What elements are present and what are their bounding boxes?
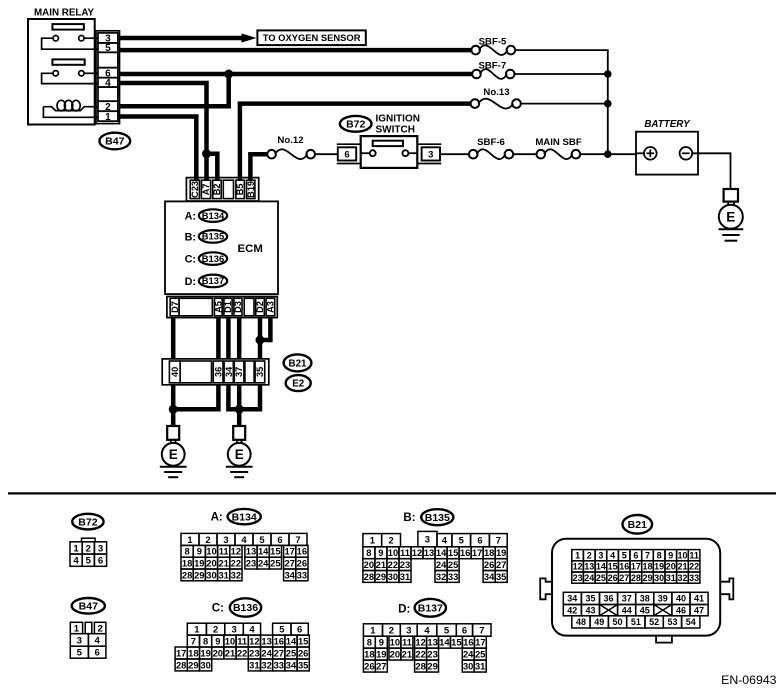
- svg-text:25: 25: [286, 647, 296, 658]
- svg-text:B47: B47: [105, 136, 124, 148]
- wire 40 to ground: [171, 385, 176, 426]
- svg-text:5: 5: [86, 556, 92, 567]
- svg-text:6: 6: [477, 535, 482, 546]
- label A B134: [211, 509, 261, 524]
- wire pin6 to SBF-7: [120, 72, 473, 77]
- svg-text:9: 9: [379, 637, 384, 648]
- svg-text:11: 11: [689, 550, 699, 560]
- svg-text:8: 8: [184, 546, 189, 557]
- wire 36 joins 40: [173, 385, 218, 410]
- main relay label: [34, 8, 95, 19]
- svg-text:B2: B2: [212, 184, 222, 196]
- svg-text:9: 9: [378, 547, 383, 558]
- svg-text:B:: B:: [403, 511, 415, 524]
- svg-text:1: 1: [370, 535, 375, 546]
- svg-text:B137: B137: [202, 275, 224, 286]
- svg-text:24: 24: [261, 647, 272, 658]
- svg-text:SWITCH: SWITCH: [376, 125, 415, 136]
- connector B47 pinout: [70, 622, 106, 658]
- svg-text:35: 35: [496, 571, 506, 582]
- svg-text:29: 29: [642, 573, 652, 583]
- svg-text:54: 54: [686, 617, 696, 627]
- svg-text:37: 37: [622, 594, 632, 604]
- battery label: [644, 119, 691, 130]
- svg-text:20: 20: [213, 647, 223, 658]
- svg-text:D1: D1: [223, 301, 233, 313]
- svg-text:MAIN SBF: MAIN SBF: [535, 137, 582, 148]
- svg-text:10: 10: [388, 547, 398, 558]
- svg-text:6: 6: [297, 624, 302, 635]
- svg-text:8: 8: [367, 637, 372, 648]
- wire D1 to 34: [226, 318, 231, 359]
- svg-text:A7: A7: [201, 184, 211, 196]
- main relay box: [28, 19, 95, 125]
- ignition switch contacts: [361, 150, 418, 156]
- svg-text:34: 34: [284, 569, 295, 580]
- svg-text:49: 49: [594, 617, 604, 627]
- svg-text:23: 23: [427, 649, 437, 660]
- oval A B134: [185, 209, 228, 222]
- ignition switch label: [376, 114, 420, 136]
- wire 35 joins 37: [239, 385, 260, 410]
- oval D B137: [185, 275, 228, 288]
- svg-text:3: 3: [598, 550, 603, 560]
- svg-text:5: 5: [459, 535, 464, 546]
- svg-text:B19: B19: [246, 181, 256, 198]
- svg-text:28: 28: [631, 573, 641, 583]
- svg-text:27: 27: [376, 661, 386, 672]
- connector B21 right tab: [720, 578, 733, 599]
- svg-text:E: E: [726, 209, 735, 224]
- ignition switch box: [361, 136, 418, 168]
- svg-text:15: 15: [451, 637, 461, 648]
- svg-text:13: 13: [424, 547, 434, 558]
- svg-text:20: 20: [364, 559, 374, 570]
- wire connector 3 to SBF-6: [440, 153, 469, 155]
- ignition switch bar: [373, 141, 403, 146]
- svg-text:SBF-5: SBF-5: [479, 36, 507, 47]
- connector B72 pinout: [70, 538, 107, 566]
- svg-text:1: 1: [73, 543, 79, 554]
- relay contact S1: [42, 36, 98, 50]
- svg-text:18: 18: [364, 649, 374, 660]
- svg-text:MAIN RELAY: MAIN RELAY: [34, 8, 95, 19]
- svg-text:BATTERY: BATTERY: [644, 119, 691, 130]
- svg-text:33: 33: [448, 571, 458, 582]
- wire branch to ECM B2: [207, 154, 218, 180]
- svg-text:5: 5: [259, 534, 264, 545]
- svg-text:11: 11: [219, 546, 229, 557]
- svg-text:11: 11: [237, 635, 247, 646]
- svg-text:2: 2: [98, 624, 103, 635]
- svg-text:50: 50: [612, 617, 622, 627]
- svg-text:32: 32: [231, 569, 241, 580]
- svg-text:IGNITION: IGNITION: [376, 114, 420, 125]
- battery plus terminal: [636, 147, 657, 160]
- svg-text:1: 1: [575, 550, 580, 560]
- svg-text:14: 14: [596, 562, 606, 572]
- svg-text:19: 19: [194, 558, 204, 569]
- svg-text:C:: C:: [185, 254, 196, 266]
- svg-text:TO OXYGEN SENSOR: TO OXYGEN SENSOR: [263, 32, 361, 43]
- svg-text:36: 36: [213, 367, 223, 377]
- svg-text:47: 47: [694, 605, 704, 615]
- svg-text:13: 13: [427, 637, 437, 648]
- svg-text:7: 7: [191, 635, 196, 646]
- svg-text:14: 14: [286, 635, 297, 646]
- battery minus terminal: [680, 147, 693, 160]
- svg-text:5: 5: [444, 624, 449, 635]
- relay coil: [43, 100, 98, 117]
- svg-text:19: 19: [496, 547, 506, 558]
- svg-text:30: 30: [654, 573, 664, 583]
- svg-text:B134: B134: [232, 511, 257, 523]
- connector B21 bottom tab: [656, 636, 672, 643]
- connector B135 pinout: [363, 531, 507, 582]
- relay contact S2: [42, 71, 98, 84]
- svg-text:2: 2: [213, 624, 218, 635]
- svg-text:D:: D:: [398, 603, 410, 616]
- svg-text:22: 22: [415, 649, 425, 660]
- svg-text:19: 19: [376, 649, 386, 660]
- svg-text:28: 28: [415, 661, 425, 672]
- connector strip B21/E2: [162, 359, 269, 385]
- svg-text:8: 8: [657, 550, 662, 560]
- svg-text:25: 25: [448, 559, 458, 570]
- svg-text:5: 5: [622, 550, 627, 560]
- wire SBF-7 to bus: [515, 73, 608, 75]
- svg-text:C23: C23: [190, 181, 200, 198]
- svg-text:E: E: [169, 447, 178, 462]
- wire SBF-5 to bus: [515, 50, 608, 154]
- svg-text:14: 14: [436, 547, 447, 558]
- svg-text:31: 31: [218, 569, 228, 580]
- fuse SBF-6: [469, 137, 513, 159]
- fuse MAIN SBF: [535, 137, 582, 159]
- svg-text:7: 7: [479, 624, 484, 635]
- svg-text:1: 1: [370, 624, 375, 635]
- svg-text:ECM: ECM: [238, 243, 263, 255]
- svg-text:24: 24: [436, 559, 447, 570]
- connector B137 pinout: [363, 624, 491, 672]
- svg-text:7: 7: [645, 550, 650, 560]
- to oxygen sensor box: [257, 30, 365, 45]
- ground E battery: [719, 189, 744, 241]
- svg-text:B72: B72: [78, 516, 97, 528]
- wire No.13 down to ECM B5: [240, 104, 471, 180]
- drawing number EN-06943: [721, 673, 777, 687]
- wire pin5 to SBF-5: [120, 48, 472, 53]
- svg-text:28: 28: [182, 569, 192, 580]
- svg-text:27: 27: [284, 558, 294, 569]
- svg-text:2: 2: [389, 624, 394, 635]
- wire pin4 down to ECM A7: [120, 83, 207, 180]
- svg-text:51: 51: [631, 617, 641, 627]
- svg-text:9: 9: [215, 635, 220, 646]
- svg-text:2: 2: [205, 534, 210, 545]
- separator line: [8, 492, 776, 494]
- svg-text:26: 26: [608, 573, 618, 583]
- ignition connector pin 6: [337, 144, 361, 163]
- svg-text:SBF-7: SBF-7: [478, 61, 506, 72]
- ECM box: [165, 201, 278, 294]
- svg-text:4: 4: [95, 635, 101, 646]
- svg-text:D7: D7: [170, 301, 180, 313]
- svg-text:20: 20: [206, 558, 216, 569]
- svg-text:22: 22: [388, 559, 398, 570]
- svg-text:32: 32: [436, 571, 446, 582]
- svg-text:38: 38: [640, 594, 650, 604]
- wire D7 to 40: [171, 318, 176, 359]
- svg-text:B21: B21: [289, 358, 308, 369]
- svg-text:29: 29: [188, 659, 198, 670]
- svg-text:21: 21: [677, 562, 687, 572]
- relay actuator bar 2: [52, 59, 84, 64]
- svg-text:5: 5: [77, 648, 83, 659]
- svg-text:10: 10: [390, 637, 400, 648]
- svg-text:29: 29: [194, 569, 204, 580]
- svg-text:19: 19: [654, 562, 664, 572]
- oval B B135: [185, 230, 228, 243]
- svg-text:3: 3: [231, 624, 236, 635]
- svg-text:30: 30: [200, 659, 210, 670]
- wire D2 to 35: [258, 318, 263, 359]
- svg-text:19: 19: [200, 647, 210, 658]
- svg-text:B137: B137: [418, 603, 443, 615]
- svg-text:15: 15: [270, 546, 280, 557]
- svg-text:32: 32: [261, 659, 271, 670]
- svg-text:25: 25: [596, 573, 606, 583]
- svg-text:3: 3: [425, 534, 430, 545]
- connector B134 pinout: [181, 533, 308, 580]
- svg-text:12: 12: [412, 547, 422, 558]
- svg-text:11: 11: [400, 547, 410, 558]
- svg-text:6: 6: [98, 556, 103, 567]
- relay actuator bar 1: [52, 24, 84, 30]
- svg-text:3: 3: [406, 624, 411, 635]
- svg-text:6: 6: [95, 648, 100, 659]
- svg-text:23: 23: [249, 647, 259, 658]
- svg-text:31: 31: [666, 573, 676, 583]
- svg-text:A5: A5: [213, 301, 223, 313]
- svg-text:27: 27: [274, 647, 284, 658]
- wire SBF-6 to MAIN SBF: [513, 153, 536, 155]
- svg-text:6: 6: [462, 624, 467, 635]
- svg-text:22: 22: [689, 562, 699, 572]
- svg-text:30: 30: [206, 569, 216, 580]
- svg-text:12: 12: [573, 562, 583, 572]
- fuse No.12: [267, 135, 315, 159]
- svg-text:40: 40: [170, 367, 180, 377]
- svg-text:23: 23: [400, 559, 410, 570]
- svg-text:2: 2: [86, 543, 91, 554]
- svg-text:39: 39: [658, 594, 668, 604]
- svg-text:24: 24: [463, 649, 474, 660]
- svg-text:13: 13: [584, 562, 594, 572]
- svg-text:35: 35: [255, 367, 265, 377]
- svg-text:B:: B:: [185, 231, 196, 243]
- svg-text:45: 45: [640, 605, 650, 615]
- svg-text:17: 17: [631, 562, 641, 572]
- svg-text:B72: B72: [346, 119, 365, 131]
- wire MAIN SBF to battery: [580, 153, 636, 155]
- wire D3 to 37: [237, 318, 242, 359]
- svg-text:9: 9: [197, 546, 202, 557]
- svg-text:B136: B136: [233, 602, 258, 614]
- label C B136: [212, 598, 261, 616]
- svg-text:14: 14: [439, 637, 450, 648]
- svg-text:26: 26: [484, 559, 494, 570]
- svg-text:53: 53: [667, 617, 677, 627]
- junction dot bus No.13: [604, 100, 612, 108]
- connector B21 left tab: [540, 578, 552, 599]
- svg-text:34: 34: [286, 659, 297, 670]
- svg-text:41: 41: [694, 594, 704, 604]
- svg-text:24: 24: [258, 558, 269, 569]
- svg-text:4: 4: [249, 624, 255, 635]
- ground E left: [160, 426, 187, 477]
- svg-text:31: 31: [400, 571, 410, 582]
- svg-text:31: 31: [475, 661, 485, 672]
- junction dot A7/B2: [202, 149, 211, 158]
- svg-text:6: 6: [633, 550, 638, 560]
- svg-text:33: 33: [689, 573, 699, 583]
- svg-text:32: 32: [677, 573, 687, 583]
- svg-text:10: 10: [677, 550, 687, 560]
- svg-text:2: 2: [587, 550, 592, 560]
- svg-text:9: 9: [668, 550, 673, 560]
- svg-text:5: 5: [279, 624, 284, 635]
- svg-text:1: 1: [194, 624, 199, 635]
- svg-text:14: 14: [258, 546, 269, 557]
- wire 34 joins 37: [228, 385, 239, 410]
- svg-text:B47: B47: [79, 601, 98, 613]
- svg-text:3: 3: [98, 543, 103, 554]
- oval B21 (strip): [284, 354, 312, 371]
- label B B135: [403, 509, 453, 525]
- svg-text:15: 15: [608, 562, 618, 572]
- svg-text:18: 18: [182, 558, 192, 569]
- svg-text:13: 13: [246, 546, 256, 557]
- svg-text:44: 44: [622, 605, 632, 615]
- svg-text:SBF-6: SBF-6: [477, 137, 505, 148]
- svg-text:6: 6: [277, 534, 282, 545]
- wire 37 to ground: [237, 385, 242, 426]
- fuse No.13: [471, 87, 521, 108]
- svg-text:21: 21: [225, 647, 235, 658]
- wire pin2 loop up: [120, 74, 229, 106]
- svg-text:6: 6: [344, 149, 349, 160]
- svg-text:15: 15: [448, 547, 458, 558]
- svg-text:16: 16: [297, 546, 307, 557]
- svg-text:40: 40: [676, 594, 686, 604]
- svg-text:34: 34: [567, 594, 577, 604]
- svg-text:12: 12: [231, 546, 241, 557]
- svg-text:29: 29: [376, 571, 386, 582]
- svg-text:52: 52: [649, 617, 659, 627]
- svg-text:35: 35: [585, 594, 595, 604]
- svg-text:12: 12: [415, 637, 425, 648]
- svg-text:C:: C:: [212, 601, 224, 614]
- svg-text:21: 21: [218, 558, 228, 569]
- svg-text:28: 28: [176, 659, 186, 670]
- oval B72 (ignition): [340, 116, 372, 132]
- svg-text:E2: E2: [292, 379, 305, 390]
- svg-text:7: 7: [496, 535, 501, 546]
- svg-text:26: 26: [364, 661, 374, 672]
- svg-text:No.13: No.13: [483, 87, 509, 98]
- svg-text:25: 25: [475, 649, 485, 660]
- svg-text:A3: A3: [266, 301, 276, 313]
- ground E right: [226, 426, 253, 477]
- svg-text:B136: B136: [202, 253, 224, 264]
- svg-text:29: 29: [427, 661, 437, 672]
- svg-text:48: 48: [576, 617, 586, 627]
- svg-text:34: 34: [224, 366, 234, 377]
- wire A3 joins D2: [260, 318, 270, 340]
- wire No.12 to ignition connector 6: [315, 153, 338, 155]
- svg-text:E: E: [235, 447, 244, 462]
- svg-text:8: 8: [203, 635, 208, 646]
- svg-text:B135: B135: [425, 512, 450, 524]
- ECM top connector strip: [186, 178, 258, 201]
- svg-text:42: 42: [567, 605, 577, 615]
- svg-text:33: 33: [274, 659, 284, 670]
- svg-text:16: 16: [460, 547, 470, 558]
- svg-text:4: 4: [424, 624, 430, 635]
- wire pin3 to oxygen sensor arrow: [120, 34, 257, 43]
- svg-text:B21: B21: [628, 519, 647, 531]
- wire No.13 to bus: [521, 103, 608, 105]
- svg-text:No.12: No.12: [277, 135, 303, 146]
- junction dot A3/D2: [256, 336, 265, 345]
- svg-text:28: 28: [364, 571, 374, 582]
- svg-text:23: 23: [246, 558, 256, 569]
- svg-text:25: 25: [270, 558, 280, 569]
- svg-text:4: 4: [73, 556, 79, 567]
- svg-text:35: 35: [298, 659, 308, 670]
- oval B47 (pinout): [72, 598, 105, 614]
- oval B72 (pinout): [72, 514, 103, 530]
- svg-text:33: 33: [297, 569, 307, 580]
- svg-text:18: 18: [484, 547, 494, 558]
- svg-text:16: 16: [274, 635, 284, 646]
- svg-text:46: 46: [676, 605, 686, 615]
- svg-text:22: 22: [231, 558, 241, 569]
- junction dot bus main: [604, 150, 612, 158]
- connector B21 top grid: [572, 550, 700, 584]
- svg-text:36: 36: [603, 594, 613, 604]
- svg-text:43: 43: [585, 605, 595, 615]
- svg-text:EN-06943: EN-06943: [721, 673, 777, 687]
- svg-text:34: 34: [484, 571, 495, 582]
- connector B21 body: [552, 539, 720, 636]
- svg-text:23: 23: [573, 573, 583, 583]
- svg-text:27: 27: [496, 559, 506, 570]
- svg-text:26: 26: [297, 558, 307, 569]
- svg-text:18: 18: [188, 647, 198, 658]
- svg-text:3: 3: [77, 635, 82, 646]
- svg-text:17: 17: [472, 547, 482, 558]
- wire ECM B19 to fuse No.12: [250, 154, 267, 180]
- svg-text:4: 4: [442, 535, 448, 546]
- svg-text:27: 27: [619, 573, 629, 583]
- svg-text:22: 22: [237, 647, 247, 658]
- junction dot bus SBF-7: [604, 70, 612, 78]
- junction dot ground right: [235, 405, 244, 414]
- svg-text:13: 13: [261, 635, 271, 646]
- svg-text:17: 17: [475, 637, 485, 648]
